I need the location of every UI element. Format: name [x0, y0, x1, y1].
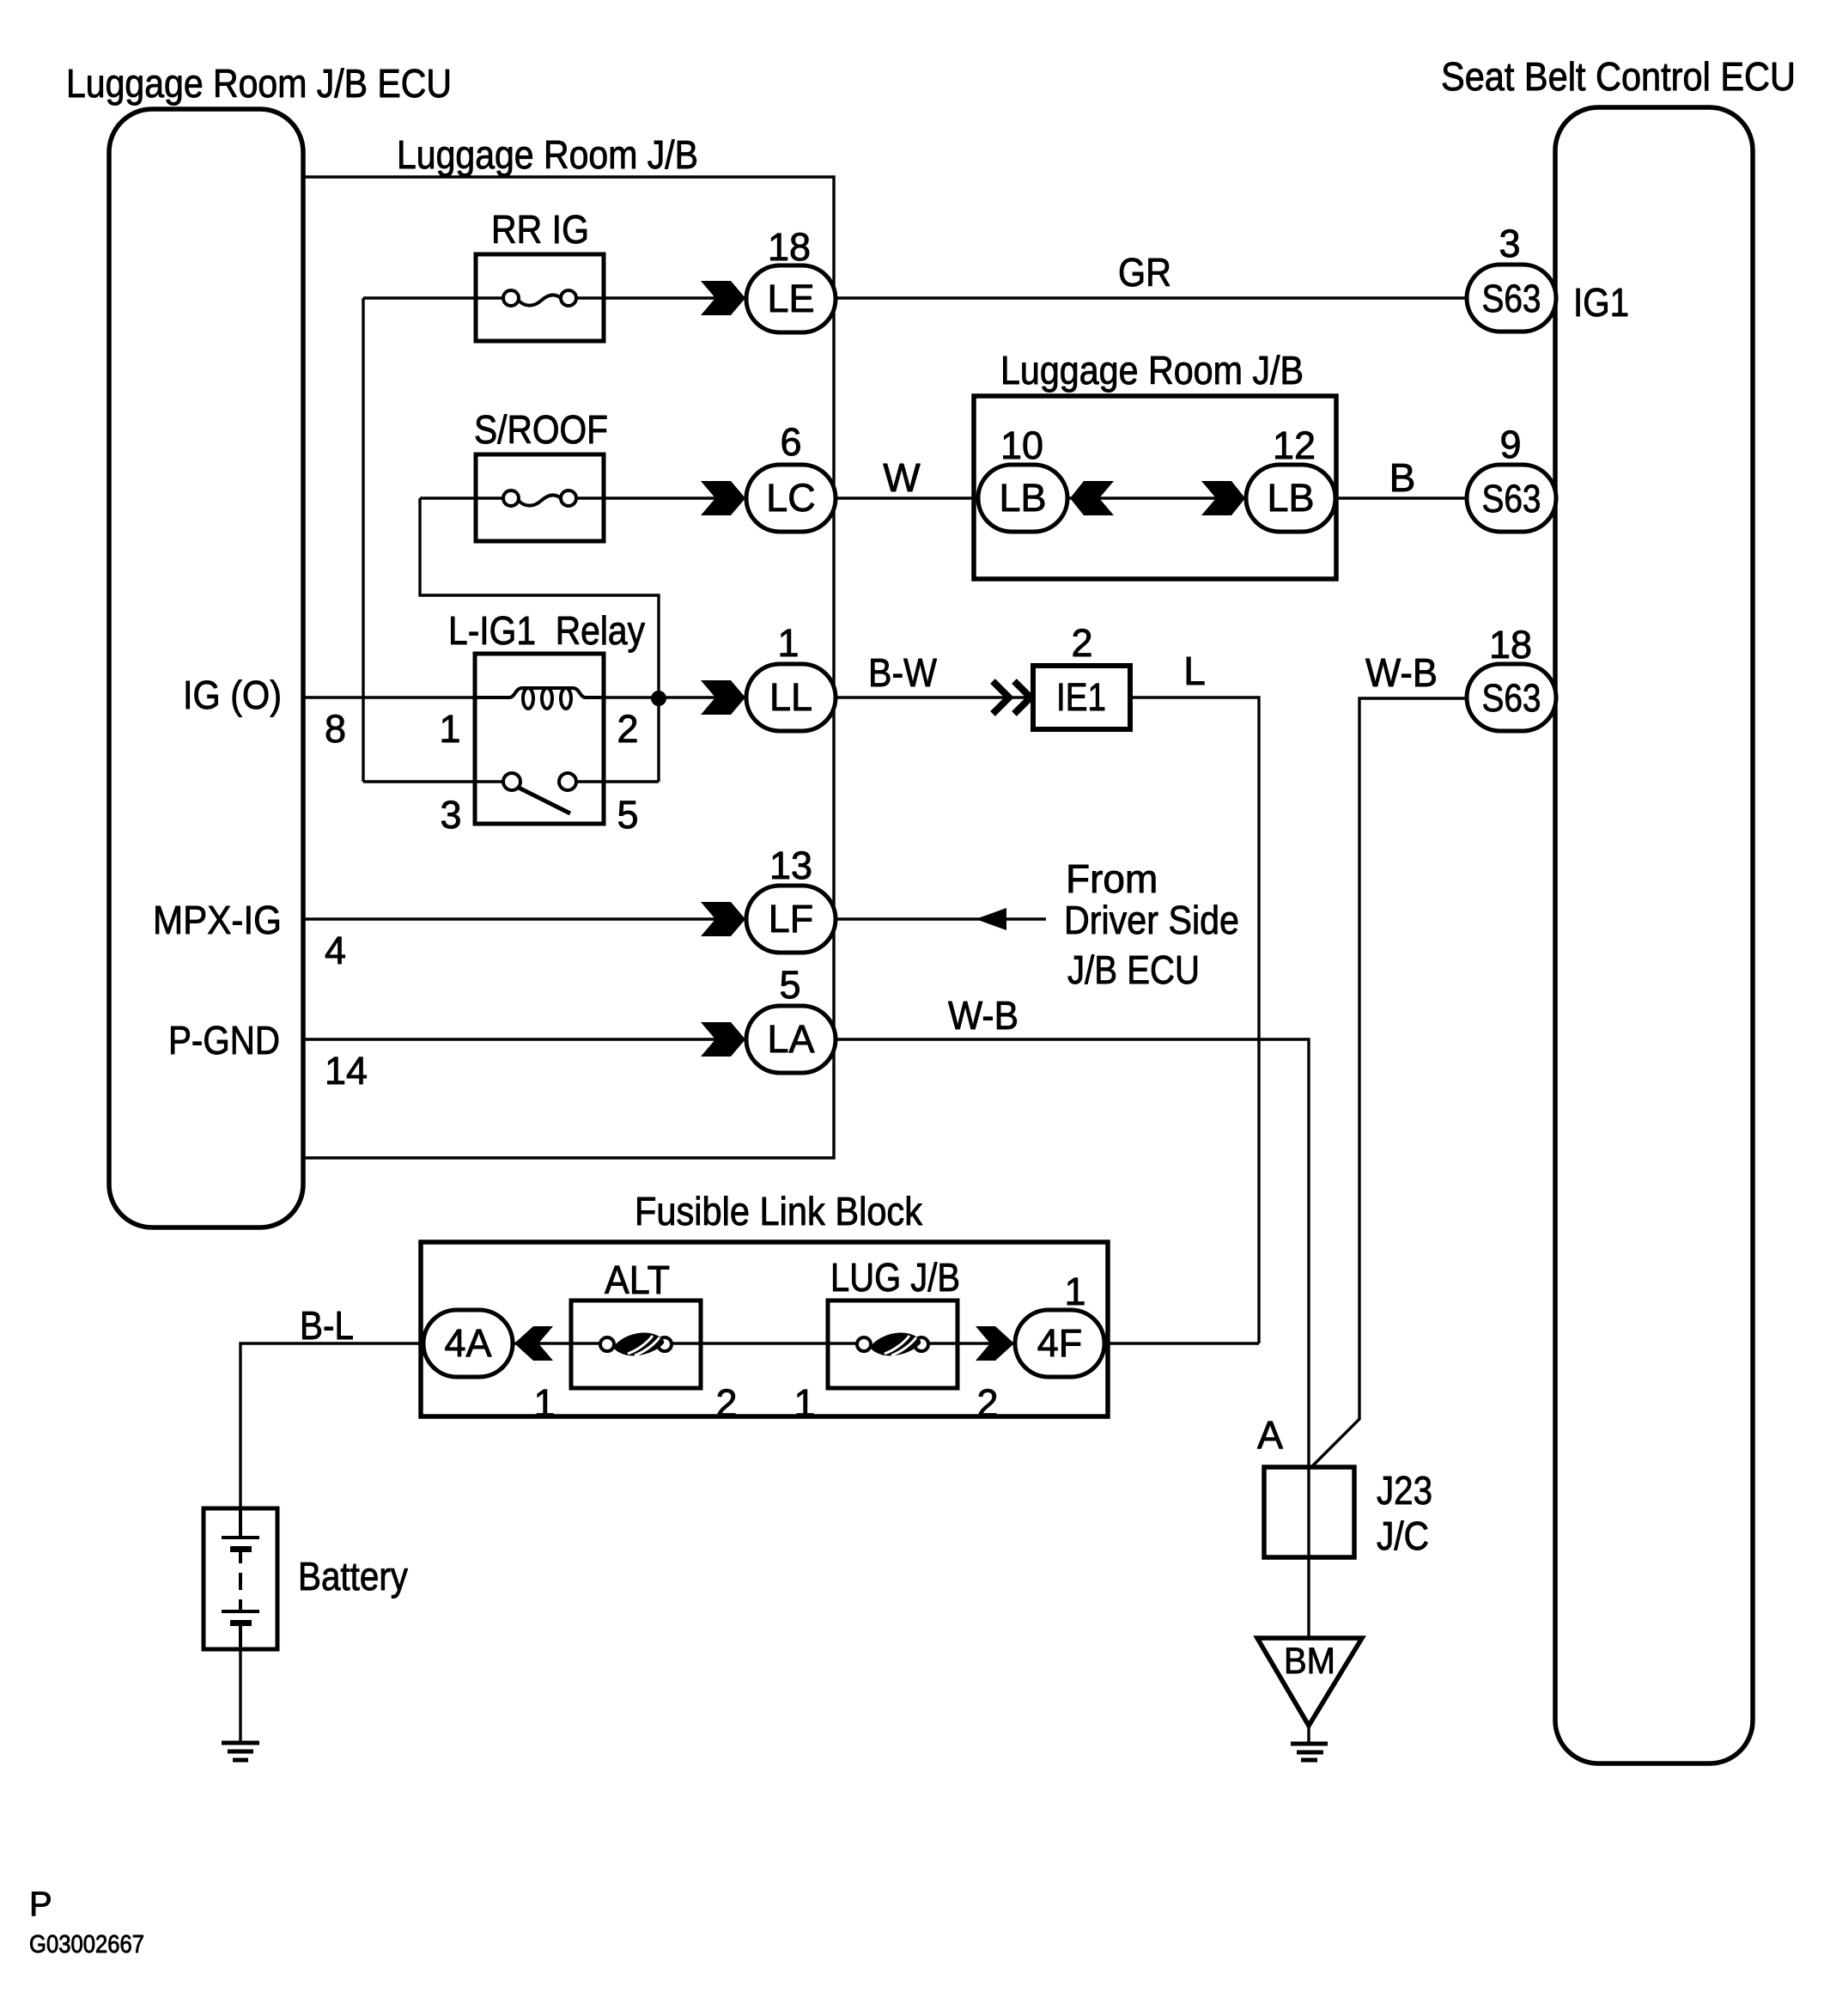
arrow male connector into LC	[701, 481, 745, 515]
wire S/ROOF row right	[575, 496, 746, 499]
svg-text:13: 13	[769, 844, 812, 887]
svg-text:3: 3	[1499, 222, 1520, 265]
svg-text:3: 3	[440, 793, 461, 837]
svg-text:1: 1	[777, 621, 799, 665]
connector terminal 4A	[423, 1310, 513, 1377]
svg-text:P-GND: P-GND	[168, 1018, 280, 1063]
wire LC to LB (W)	[836, 496, 978, 499]
fusible link LUG J/B	[828, 1300, 958, 1388]
svg-text:5: 5	[779, 963, 800, 1007]
svg-text:6: 6	[780, 420, 801, 464]
connector terminal LC	[746, 465, 836, 532]
arrow male connector into LL	[701, 680, 745, 715]
wire battery to 4A (B-L)	[240, 1343, 423, 1508]
svg-text:LE: LE	[767, 277, 814, 320]
svg-text:Driver Side: Driver Side	[1064, 898, 1239, 942]
svg-text:5: 5	[617, 793, 638, 837]
wire LE to S63 (GR)	[836, 296, 1467, 299]
fuse RR IG	[476, 254, 604, 341]
wire LUG J/B to 4F	[958, 1342, 1015, 1344]
ground triangle BM	[1257, 1638, 1362, 1726]
wire RR IG feed vertical	[362, 298, 364, 782]
svg-text:IG (O): IG (O)	[183, 673, 282, 717]
svg-text:W: W	[883, 455, 921, 500]
svg-text:1: 1	[1064, 1270, 1085, 1313]
connector terminal LL	[746, 664, 836, 731]
svg-text:J/B ECU: J/B ECU	[1067, 947, 1200, 992]
svg-text:4: 4	[325, 929, 346, 972]
junction node relay output	[651, 691, 666, 706]
relay L-IG1 box	[475, 654, 604, 824]
connector terminal LA	[746, 1006, 836, 1073]
wire battery to ground	[239, 1649, 241, 1743]
connector terminal S63 pin3	[1467, 265, 1556, 332]
svg-text:4F: 4F	[1037, 1321, 1083, 1365]
connector terminal LB pin10	[978, 465, 1067, 532]
wire MPX-IG row	[305, 917, 746, 920]
arrow female connector at 4A	[514, 1326, 553, 1361]
ground battery	[222, 1743, 259, 1760]
connector terminal LF	[746, 886, 836, 953]
junction connector J23 box	[1264, 1467, 1354, 1557]
svg-text:Luggage Room J/B ECU: Luggage Room J/B ECU	[66, 61, 452, 106]
arrow double chevron into IE1	[993, 681, 1031, 714]
svg-text:LA: LA	[767, 1017, 814, 1061]
svg-text:18: 18	[768, 225, 811, 269]
svg-text:LC: LC	[766, 476, 816, 520]
ECU block Luggage Room J/B ECU	[109, 109, 303, 1227]
arrow male connector into LA	[701, 1022, 745, 1057]
svg-text:LB: LB	[999, 476, 1046, 520]
wire IG (O) row	[305, 696, 477, 698]
connector terminal LE	[746, 265, 836, 332]
svg-text:L-IG1 Relay: L-IG1 Relay	[448, 608, 645, 653]
svg-text:LUG J/B: LUG J/B	[830, 1255, 960, 1300]
svg-text:Fusible Link Block: Fusible Link Block	[635, 1189, 923, 1233]
wire LF from driver side	[836, 917, 1046, 920]
svg-text:1: 1	[793, 1381, 815, 1425]
svg-text:S63: S63	[1482, 477, 1541, 521]
svg-text:Luggage Room J/B: Luggage Room J/B	[397, 132, 698, 177]
svg-text:Luggage Room J/B: Luggage Room J/B	[1000, 348, 1304, 393]
fusible link block box	[421, 1242, 1108, 1416]
svg-text:W-B: W-B	[948, 993, 1018, 1038]
svg-text:MPX-IG: MPX-IG	[153, 898, 282, 942]
svg-text:LB: LB	[1267, 476, 1314, 520]
svg-text:RR IG: RR IG	[491, 207, 589, 252]
connector IE1	[1033, 666, 1130, 729]
wire P-GND row	[305, 1038, 746, 1040]
wire relay switch right	[604, 780, 659, 783]
wire LB to S63 (B)	[1335, 496, 1467, 499]
svg-text:18: 18	[1489, 623, 1532, 667]
arrow male connector into LF	[701, 902, 745, 936]
svg-text:S/ROOF: S/ROOF	[474, 407, 608, 452]
wire relay switch left	[363, 780, 475, 783]
svg-text:14: 14	[325, 1049, 368, 1093]
ECU block Seat Belt Control ECU	[1555, 107, 1753, 1763]
svg-text:G03002667: G03002667	[29, 1931, 144, 1958]
wire 4F to L wire	[1104, 1342, 1259, 1344]
wire LL to IE1 (B-W)	[836, 696, 1033, 698]
svg-text:8: 8	[325, 707, 346, 751]
ground BM	[1291, 1744, 1328, 1760]
svg-text:2: 2	[715, 1381, 737, 1425]
connector terminal S63 pin9	[1467, 465, 1556, 532]
relay switch	[475, 773, 604, 813]
svg-text:ALT: ALT	[605, 1258, 670, 1302]
svg-text:A: A	[1257, 1413, 1283, 1457]
svg-text:GR: GR	[1118, 250, 1171, 295]
svg-text:L: L	[1183, 649, 1206, 693]
svg-text:B: B	[1389, 455, 1416, 500]
wire LA to J23 (W-B)	[836, 1039, 1309, 1638]
svg-text:1: 1	[439, 707, 460, 751]
svg-text:12: 12	[1273, 423, 1316, 467]
svg-text:IG1: IG1	[1573, 280, 1629, 325]
wire S63 pin18 to junction J23	[1311, 698, 1467, 1467]
svg-text:From: From	[1066, 856, 1158, 901]
svg-text:B-L: B-L	[300, 1303, 354, 1348]
arrow male connector into 4F	[976, 1326, 1014, 1361]
svg-text:Battery: Battery	[298, 1554, 408, 1599]
svg-text:9: 9	[1499, 423, 1521, 466]
svg-text:P: P	[29, 1885, 52, 1923]
arrow female connector at LB pin10	[1070, 481, 1114, 515]
connector terminal S63 pin18	[1467, 664, 1556, 731]
arrow male connector into LE	[701, 281, 745, 315]
svg-text:B-W: B-W	[868, 650, 938, 695]
svg-text:IE1: IE1	[1056, 675, 1106, 719]
svg-text:1: 1	[533, 1381, 555, 1425]
svg-text:2: 2	[976, 1381, 998, 1425]
svg-text:LF: LF	[769, 897, 814, 941]
wire IE1 output (L)	[1130, 697, 1259, 1343]
svg-text:4A: 4A	[444, 1321, 491, 1365]
arrow head on LF wire	[976, 908, 1006, 930]
connector terminal 4F	[1015, 1310, 1104, 1377]
wire inside LB box	[1067, 496, 1246, 499]
wire 4A to ALT	[513, 1342, 571, 1344]
junction block boundary Luggage Room J/B	[305, 177, 834, 1158]
wire RR IG row left	[363, 296, 505, 299]
svg-text:Seat Belt Control ECU: Seat Belt Control ECU	[1441, 54, 1796, 99]
fuse S/ROOF	[476, 454, 604, 541]
svg-text:10: 10	[1000, 423, 1043, 467]
junction block box Luggage Room J/B (LB)	[974, 396, 1336, 579]
annotation From Driver Side J/B ECU	[1064, 856, 1239, 992]
svg-text:LL: LL	[769, 675, 812, 719]
svg-text:BM: BM	[1284, 1641, 1335, 1682]
svg-text:2: 2	[1071, 621, 1092, 665]
svg-text:W-B: W-B	[1365, 650, 1438, 695]
arrow male connector into LB pin12	[1201, 481, 1245, 515]
svg-text:J/C: J/C	[1377, 1514, 1429, 1558]
svg-text:S63: S63	[1482, 277, 1541, 320]
svg-text:S63: S63	[1482, 676, 1541, 720]
svg-text:2: 2	[617, 707, 638, 751]
battery	[204, 1508, 277, 1649]
svg-text:J23: J23	[1377, 1468, 1432, 1513]
wire BM to ground	[1307, 1726, 1310, 1744]
connector terminal LB pin12	[1246, 465, 1335, 532]
fusible link ALT	[571, 1300, 701, 1388]
wire S/ROOF row left	[420, 496, 505, 499]
wire coil output to LL	[601, 696, 746, 698]
relay coil	[475, 688, 604, 709]
wire S/ROOF feed vertical	[420, 498, 659, 782]
wire ALT to LUG J/B	[701, 1342, 828, 1344]
wire RR IG row right	[575, 296, 746, 299]
